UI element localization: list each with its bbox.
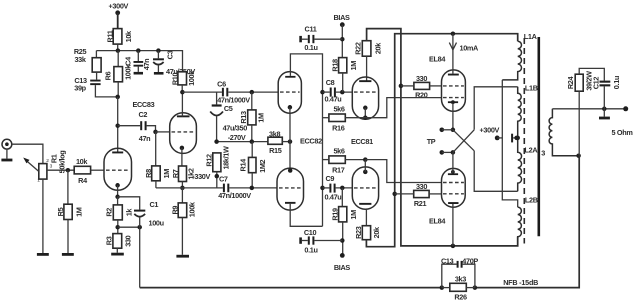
svg-text:R24: R24 [566, 76, 575, 90]
svg-text:33k: 33k [74, 55, 86, 64]
svg-text:1: 1 [37, 177, 40, 183]
transformer core [523, 38, 525, 244]
ground (output) [603, 109, 605, 117]
resistor R20 330 [414, 82, 430, 89]
svg-text:R9: R9 [170, 206, 179, 215]
svg-text:10k: 10k [76, 157, 88, 166]
capacitor C2 47n [118, 125, 141, 127]
svg-text:C13: C13 [441, 257, 454, 266]
svg-text:ECC82: ECC82 [300, 137, 322, 146]
wire BIAS to R18 [341, 25, 343, 58]
wire R24 to NFB line [578, 91, 580, 156]
svg-text:R12: R12 [204, 154, 213, 167]
svg-text:5k6: 5k6 [333, 147, 344, 156]
svg-text:C10: C10 [304, 228, 317, 237]
wire R9 to ground [181, 218, 183, 255]
svg-text:R17: R17 [332, 165, 345, 174]
wire R2 to R3 [117, 220, 119, 234]
svg-text:1M: 1M [162, 169, 171, 179]
svg-text:+300V: +300V [480, 126, 500, 135]
wire +300V feed line L1A to L2B [502, 80, 517, 207]
svg-text:100k: 100k [187, 70, 196, 86]
potentiometer R1 50k/log [39, 164, 47, 180]
svg-text:R8: R8 [144, 169, 153, 178]
test point TP lower [440, 150, 445, 155]
svg-text:L2B: L2B [525, 196, 538, 205]
wire upper bus ECC83b anode to C6 [182, 91, 222, 93]
svg-text:39p: 39p [74, 84, 86, 93]
wire ECC83b anode to R10 [181, 92, 183, 116]
capacitor C13 39p [96, 72, 98, 80]
svg-text:R2: R2 [105, 208, 114, 217]
svg-text:47n: 47n [142, 59, 151, 71]
wire C8 to ECC81a grid, R18 node [336, 91, 352, 93]
capacitor C7 47n/1000V [223, 184, 225, 193]
wire R15 to ECC82 cathodes [282, 141, 290, 143]
wire NFB riser from C1 node [139, 227, 141, 287]
svg-text:C3: C3 [165, 50, 174, 59]
wire R23 bootstrap to EL84a anode rail [366, 34, 517, 247]
triode ECC83a [104, 148, 132, 190]
svg-text:470P: 470P [462, 257, 478, 266]
resistor R16 5k6 [329, 114, 345, 122]
wire cathode node to C1 [118, 226, 140, 228]
resistor R23 20k [362, 226, 370, 240]
svg-text:R13: R13 [239, 111, 248, 124]
winding L2B [518, 207, 522, 246]
resistor R2 1k [117, 197, 119, 205]
wire R19 to BIAS lower [342, 222, 344, 256]
wire cathode to L2A winding [474, 151, 518, 192]
wire R1 wiper to R4, node with R5 [47, 169, 74, 171]
pentode EL84a [442, 70, 466, 111]
svg-text:C11: C11 [305, 25, 317, 34]
wire EL84a anode to rail, 10mA arrow [452, 34, 454, 74]
wire ECC82b anode to riser [290, 204, 322, 227]
wire lower bus R8 to C7 [156, 187, 223, 189]
capacitor C5 47u/350 electrolytic [216, 92, 218, 104]
svg-text:0.1u: 0.1u [612, 76, 621, 89]
wire shared cathode link ECC82 [289, 113, 291, 168]
svg-text:R18: R18 [330, 59, 339, 72]
svg-text:R6: R6 [104, 71, 113, 80]
svg-text:C2: C2 [138, 110, 147, 119]
svg-text:R10: R10 [171, 73, 180, 86]
wire EL84a cathode to TP cross [452, 103, 454, 130]
svg-text:1M: 1M [75, 207, 84, 217]
wire EL84b anode to L2B line [452, 204, 454, 246]
capacitor C6 47n/1000V [222, 88, 224, 97]
resistor R24 39/2W [575, 74, 583, 91]
resistor R12 18k/1W [213, 153, 221, 172]
svg-text:ECC81: ECC81 [351, 137, 373, 146]
wire R4 to ECC83 grid [91, 169, 104, 171]
wire anode node down to ECC83a anode, C2 tap [117, 97, 119, 153]
svg-text:C6: C6 [217, 80, 226, 89]
svg-text:20k: 20k [372, 226, 381, 238]
wire R12 to -330V node and lower bus [216, 172, 218, 188]
svg-text:100k: 100k [187, 201, 196, 217]
capacitor C4 47n [137, 51, 139, 61]
resistor R15 3k8 [268, 137, 282, 144]
wire cathode to L1B winding [474, 87, 518, 130]
svg-text:1M: 1M [349, 210, 358, 220]
triode ECC81a [366, 56, 368, 81]
node BIAS lower [340, 253, 345, 258]
capacitor C9 0.47u [323, 187, 330, 189]
svg-text:0.1u: 0.1u [304, 43, 317, 52]
wire +300V to R11 [117, 13, 119, 29]
svg-text:5k6: 5k6 [333, 105, 344, 114]
resistor R22 20k [362, 41, 371, 57]
ground (R3) [111, 253, 124, 256]
svg-text:C7: C7 [219, 174, 228, 183]
svg-text:R5: R5 [56, 207, 65, 216]
svg-text:R26: R26 [454, 292, 467, 301]
triode ECC82a [278, 72, 301, 114]
wire C13 to ECC83 anode node [95, 85, 117, 97]
capacitor C13 470P [442, 264, 457, 287]
wire ECC82a anode route to C8 [290, 54, 322, 226]
resistor R7 1k2 [179, 166, 187, 182]
resistor R8 1M grid leak [155, 132, 157, 166]
svg-text:47n/1000V: 47n/1000V [217, 95, 250, 104]
capacitor C12 0.1u [600, 81, 611, 83]
resistor R6 100k [117, 51, 119, 67]
wire C7 to ECC82b grid [229, 187, 277, 189]
wire input jack to potentiometer R1 [12, 144, 43, 163]
wire center line C5/R12 to R15 [217, 141, 268, 143]
wire ECC81b anode to R23 [365, 209, 367, 226]
svg-text:-330V: -330V [192, 172, 210, 181]
wire R6 to anode node [117, 82, 119, 97]
ground (input jack) [1, 159, 12, 162]
test point TP upper [440, 128, 445, 133]
svg-text:1k: 1k [124, 208, 133, 217]
svg-text:R19: R19 [330, 208, 339, 221]
svg-text:R7: R7 [171, 169, 180, 178]
svg-text:3: 3 [541, 149, 545, 158]
svg-text:C5: C5 [224, 104, 233, 113]
wire secondary to 5 Ohm output [552, 108, 625, 110]
wire ECC82a cathode down [289, 107, 291, 113]
wire R5 to ground [67, 220, 69, 254]
wire R18 to grid line [342, 73, 344, 92]
svg-text:R15: R15 [269, 146, 282, 155]
resistor R14 1M2 [251, 142, 253, 158]
svg-text:R4: R4 [78, 176, 88, 185]
resistor R3 330 [113, 234, 122, 249]
wire input jack to ground [6, 149, 8, 159]
wire B+ bus [96, 51, 182, 72]
svg-text:C4: C4 [123, 56, 132, 66]
node 5 Ohm output terminal [623, 106, 628, 111]
svg-text:3k8: 3k8 [269, 129, 280, 138]
wire R22 bootstrap to EL84b anode line [367, 29, 518, 246]
winding L1A [502, 41, 521, 80]
svg-text:NFB -15dB: NFB -15dB [503, 278, 538, 287]
ground (R1) [37, 253, 49, 256]
capacitor C8 0.47u [323, 91, 330, 93]
ground (R5) [62, 253, 74, 256]
svg-text:3: 3 [50, 163, 53, 169]
svg-text:L2A: L2A [525, 145, 539, 154]
wire C2 to ECC83b grid, R8 node [147, 126, 156, 132]
resistor R13 1M [251, 92, 253, 110]
svg-text:R20: R20 [415, 90, 428, 99]
resistor R18 1M [339, 58, 347, 73]
resistor R25 33k [92, 58, 101, 72]
svg-text:BIAS: BIAS [334, 263, 351, 272]
svg-text:10mA: 10mA [460, 44, 480, 53]
svg-text:330: 330 [123, 235, 132, 246]
svg-text:0.47u: 0.47u [325, 193, 342, 202]
svg-text:330: 330 [416, 74, 427, 83]
resistor R11 10k [113, 29, 122, 44]
wire ECC81a cathode to R16 and EL84a g1 [364, 108, 366, 118]
svg-text:47n/1000V: 47n/1000V [218, 191, 251, 200]
winding L1B [518, 87, 522, 138]
resistor R19 1M [341, 188, 343, 207]
resistor R26 3k3 [440, 285, 445, 290]
center tap terminal bar [511, 134, 513, 143]
svg-text:100u: 100u [149, 219, 164, 228]
svg-text:ECC83: ECC83 [133, 100, 155, 109]
pentode EL84b [442, 168, 466, 207]
winding L3 secondary [549, 109, 579, 156]
triode ECC81b [352, 167, 378, 209]
resistor R10 100k [178, 72, 187, 85]
ground (C4) [134, 72, 143, 75]
resistor R9 100k [181, 188, 183, 203]
wire ECC81b cathode to EL84b g1 [364, 160, 366, 172]
wire R3 to ground [116, 248, 118, 253]
wire ECC83b cathode to R7 [181, 148, 183, 166]
wire R24/C12 top bracket [579, 68, 604, 80]
svg-text:C8: C8 [326, 78, 335, 87]
svg-text:0.47u: 0.47u [325, 95, 342, 104]
junction dots on B+ bus [116, 48, 121, 53]
svg-text:R16: R16 [332, 124, 345, 133]
svg-text:R21: R21 [414, 199, 427, 208]
winding L2A [518, 138, 522, 191]
svg-text:R11: R11 [105, 30, 114, 42]
resistor R17 5k6 [329, 156, 345, 164]
svg-text:330: 330 [416, 182, 427, 191]
svg-text:C9: C9 [326, 174, 335, 183]
svg-text:EL84: EL84 [429, 217, 446, 226]
svg-text:R14: R14 [239, 158, 248, 172]
svg-text:1M: 1M [257, 113, 266, 123]
wire R11 to B+ bus [117, 44, 119, 51]
ground (R9) [176, 255, 189, 258]
wire C9 to ECC81b grid, R19 node [336, 187, 353, 189]
svg-text:R3: R3 [104, 236, 113, 245]
svg-text:10k: 10k [124, 30, 133, 42]
svg-text:+300V: +300V [109, 2, 129, 11]
svg-text:18k/1W: 18k/1W [221, 146, 230, 170]
svg-text:3k3: 3k3 [455, 274, 466, 283]
wire R8 to lower bus [155, 181, 157, 188]
wire R1 to ground [42, 179, 44, 253]
wire ECC83a cathode to R2/C1 node [117, 185, 119, 197]
svg-text:1M2: 1M2 [258, 159, 267, 172]
capacitor C1 100u electrolytic [118, 197, 140, 210]
svg-text:-270V: -270V [228, 133, 246, 142]
svg-text:R23: R23 [354, 226, 363, 239]
svg-text:C12: C12 [591, 77, 600, 90]
capacitor C3 47u/350V electrolytic [157, 51, 159, 59]
svg-text:BIAS: BIAS [333, 13, 350, 22]
svg-text:5 Ohm: 5 Ohm [612, 128, 634, 137]
resistor R21 330 [414, 190, 429, 197]
resistor R4 10k [74, 166, 90, 174]
svg-text:C1: C1 [150, 200, 159, 209]
svg-text:L1B: L1B [525, 84, 538, 93]
svg-text:TP: TP [427, 137, 436, 146]
wire cathode cross-coupling X [453, 130, 474, 151]
svg-text:0.1u: 0.1u [304, 246, 317, 255]
triode ECC82b [277, 168, 304, 210]
svg-text:20k: 20k [373, 42, 382, 54]
wire C6 to ECC82a grid [228, 91, 278, 93]
svg-text:1M: 1M [349, 61, 358, 71]
svg-text:EL84: EL84 [429, 55, 446, 64]
triode ECC83b [170, 113, 197, 154]
wire EL84b cathode to TP cross [452, 152, 454, 173]
svg-text:R22: R22 [354, 42, 363, 55]
svg-text:47n: 47n [139, 134, 151, 143]
resistor R5 1M [67, 170, 69, 204]
ground (C3) [154, 72, 164, 75]
wire NFB main run [475, 156, 579, 288]
input jack J1 [2, 139, 12, 149]
svg-text:L1A: L1A [524, 32, 538, 41]
